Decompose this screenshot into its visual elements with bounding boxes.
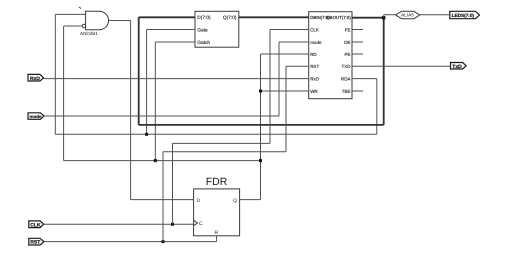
wire net LEDS: jog up from junction xyxy=(383,15,385,18)
svg-text:TxD: TxD xyxy=(452,64,462,70)
svg-text:RxD: RxD xyxy=(310,76,319,81)
svg-text:mode: mode xyxy=(310,40,322,45)
svg-text:TXD: TXD xyxy=(342,64,352,69)
svg-text:CLK: CLK xyxy=(30,222,41,228)
wire net RST: branch vertical xyxy=(162,152,164,242)
wire net AND_out: FDR D horizontal xyxy=(131,199,194,201)
input port RxD xyxy=(28,74,44,82)
svg-text:Q(7:0): Q(7:0) xyxy=(223,15,237,21)
bus net D(7:0): DBOUT vertical xyxy=(383,18,385,125)
wire net CLK: UART CLK pin stub xyxy=(270,29,309,31)
wire net RST: port horizontal xyxy=(44,241,217,243)
wire net TBE: open stub xyxy=(352,90,363,92)
svg-text:RDA: RDA xyxy=(341,76,351,81)
junction net Q_FDR at long horizontal xyxy=(259,159,262,162)
clock wedge on FDR C pin xyxy=(194,220,198,225)
bus net D(7:0): UART DBOUT stub xyxy=(352,17,384,19)
svg-text:FDR: FDR xyxy=(206,176,228,188)
svg-text:RD: RD xyxy=(310,52,317,57)
svg-text:LEDS(7:0): LEDS(7:0) xyxy=(452,13,475,18)
wire net RST: FDR R vertical xyxy=(216,236,218,242)
wire net RST: UART RST pin stub xyxy=(286,65,309,67)
wire net Q_FDR: latch Gatch vertical xyxy=(154,42,156,161)
svg-text:C: C xyxy=(199,221,203,227)
wire net CLK: branch vertical xyxy=(172,143,174,224)
svg-text:CLK: CLK xyxy=(310,27,319,32)
wire net Q_FDR: latch Gatch pin stub xyxy=(155,41,195,43)
flip-flop U_FDR xyxy=(194,189,240,236)
wire net Q_FDR: main vertical xyxy=(260,54,262,200)
wire net Q_FDR: long horizontal xyxy=(64,160,261,162)
svg-text:RST: RST xyxy=(30,240,40,246)
wire net CLK: port to FDR C xyxy=(44,223,194,225)
latch U_LATCH (D(7:0)/Gate/Gatch -> Q(7:0)) xyxy=(195,11,239,47)
wire net RDA: UART RDA pin stub xyxy=(352,78,377,80)
svg-text:TBE: TBE xyxy=(342,89,351,94)
wire net LEDS: to alias hexagon xyxy=(384,14,396,16)
wire net Q_FDR: left vertical xyxy=(63,26,65,161)
svg-text:DBOUT(7:0): DBOUT(7:0) xyxy=(326,15,351,20)
junction net Q_FDR at Gatch vertical xyxy=(154,159,157,162)
svg-text:Gate: Gate xyxy=(197,27,208,33)
wire net CLK: vertical to UART xyxy=(269,30,271,144)
svg-text:R: R xyxy=(215,230,219,236)
input port CLK xyxy=(29,221,44,228)
net alias hexagon ALIAS xyxy=(396,11,420,18)
junction net RST at branch xyxy=(162,240,165,243)
wire net RxD: port to UART xyxy=(44,78,309,80)
wire net mode: UART mode pin stub xyxy=(279,41,309,43)
wire net RDA: long horizontal xyxy=(55,133,377,135)
wire net CLK: branch horizontal xyxy=(173,142,271,144)
bus net D(7:0): bottom horizontal xyxy=(139,124,384,126)
svg-text:PE: PE xyxy=(344,52,350,57)
wire net RDA: left vertical xyxy=(54,14,56,134)
svg-text:D: D xyxy=(197,198,201,204)
bus net D(7:0): vertical xyxy=(138,17,140,125)
wire net mode: port horizontal xyxy=(44,115,279,117)
wire net RDA: latch Gate vertical xyxy=(146,30,148,135)
wire net mode: vertical xyxy=(278,42,280,116)
instance marker tick above AND gate xyxy=(79,7,81,9)
wire net OE: open stub xyxy=(352,41,363,43)
output port TxD xyxy=(451,63,467,70)
wire net RDA: AND top input horizontal xyxy=(55,13,85,15)
wire net RDA: latch Gate pin stub xyxy=(147,29,195,31)
svg-text:ALIAS: ALIAS xyxy=(401,13,414,18)
svg-text:FE: FE xyxy=(345,27,351,32)
svg-text:Q: Q xyxy=(233,198,237,204)
wire net LEDS: alias to port xyxy=(420,14,450,16)
svg-text:RxD: RxD xyxy=(30,76,40,82)
wire net FE: open stub xyxy=(352,29,363,31)
svg-text:WR: WR xyxy=(310,89,318,94)
input port mode xyxy=(28,113,44,120)
wire net RST: vertical to UART xyxy=(285,66,287,151)
wire net Q_FDR: FDR Q output horizontal xyxy=(240,199,261,201)
bus net Q(7:0): latch Q to UART DBIN xyxy=(239,16,309,18)
wire net PE: open stub xyxy=(352,53,363,55)
wire net TxD: UART TXD to port xyxy=(352,65,451,67)
wire net RDA: right vertical to pin xyxy=(376,79,378,135)
junction net CLK at branch xyxy=(171,223,174,226)
wire net Q_FDR: UART RD pin stub xyxy=(261,53,309,55)
wire net RST: branch horizontal xyxy=(163,151,286,153)
wire net AND_out: vertical xyxy=(130,21,132,200)
UART U_UART xyxy=(309,12,352,99)
AND gate U_AND AND2B1 xyxy=(82,11,108,30)
junction bus DBOUT xyxy=(382,16,385,19)
svg-text:RST: RST xyxy=(310,64,319,69)
svg-text:mode: mode xyxy=(30,114,42,119)
wire net AND_out: horizontal from gate xyxy=(109,20,131,22)
junction net Q_FDR at WR pin xyxy=(259,90,262,93)
output port LEDS(7:0) xyxy=(450,11,480,18)
svg-text:Gatch: Gatch xyxy=(197,40,210,46)
junction net RDA at Gate vertical xyxy=(145,133,148,136)
svg-text:D(7:0): D(7:0) xyxy=(197,15,211,21)
wire net Q_FDR: AND bubble input horizontal xyxy=(64,25,83,27)
bus net D(7:0): latch D stub xyxy=(139,16,195,18)
svg-text:AND2B1: AND2B1 xyxy=(80,31,98,36)
wire net Q_FDR: UART WR pin stub xyxy=(261,90,309,92)
input port RST xyxy=(29,238,44,245)
svg-text:OE: OE xyxy=(344,40,351,45)
